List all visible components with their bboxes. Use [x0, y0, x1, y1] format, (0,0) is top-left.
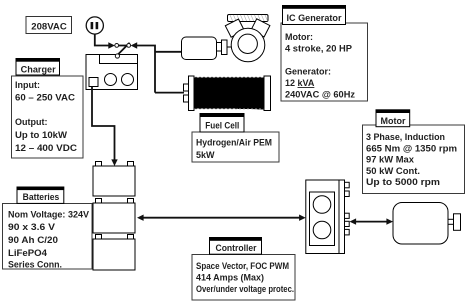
Charger spec box [12, 76, 84, 158]
svg-text:414 Amps (Max): 414 Amps (Max) [196, 273, 264, 283]
svg-text:Over/under voltage protec.: Over/under voltage protec. [196, 284, 294, 294]
wire batteries to controller (bidirectional) [137, 215, 306, 221]
wire controller to motor (bidirectional) [350, 218, 394, 224]
wire plug to switch [95, 34, 115, 49]
svg-text:Charger: Charger [21, 65, 56, 75]
IC Generator label box [282, 5, 346, 24]
svg-text:5kW: 5kW [196, 150, 215, 160]
svg-text:12 – 400 VDC: 12 – 400 VDC [15, 143, 78, 153]
svg-text:Batteries: Batteries [23, 192, 60, 202]
svg-text:Nom Voltage: 324V: Nom Voltage: 324V [8, 210, 89, 220]
svg-text:Series Conn.: Series Conn. [8, 260, 62, 270]
battery module B1 [93, 162, 135, 197]
svg-text:90 x 3.6 V: 90 x 3.6 V [8, 222, 55, 232]
Batteries label box [17, 187, 64, 204]
motor icon [393, 203, 461, 245]
svg-text:Generator:: Generator: [285, 67, 331, 77]
svg-text:IC Generator: IC Generator [287, 13, 343, 23]
wire trunk from generator to switch [131, 42, 155, 92]
node 208VAC label box [26, 17, 72, 34]
charger unit icon [86, 55, 138, 90]
fuel cell stack icon [184, 76, 271, 111]
wire trunk branch to generator [155, 51, 182, 53]
Charger label box [16, 58, 60, 75]
svg-text:Up to 5000 rpm: Up to 5000 rpm [366, 177, 440, 187]
plug J1 (AC outlet symbol) [86, 17, 103, 34]
svg-text:60 – 250 VAC: 60 – 250 VAC [15, 93, 76, 103]
svg-text:3 Phase, Induction: 3 Phase, Induction [366, 132, 445, 142]
svg-text:Fuel Cell: Fuel Cell [205, 120, 239, 130]
svg-text:Space Vector, FOC PWM: Space Vector, FOC PWM [196, 261, 289, 271]
IC generator coupling [217, 40, 233, 55]
Fuel Cell label box [200, 113, 245, 132]
svg-text:Output:: Output: [15, 117, 47, 127]
svg-text:240VAC @ 60Hz: 240VAC @ 60Hz [285, 90, 356, 100]
svg-text:LiFePO4: LiFePO4 [8, 248, 47, 258]
svg-text:208VAC: 208VAC [31, 22, 67, 32]
IC Generator spec box [281, 23, 368, 101]
controller unit icon [306, 180, 349, 254]
svg-text:50 kW Cont.: 50 kW Cont. [366, 166, 420, 176]
svg-text:12 kVA: 12 kVA [285, 78, 315, 88]
svg-text:90 Ah C/20: 90 Ah C/20 [8, 235, 58, 245]
Controller label box [209, 237, 262, 254]
svg-text:665 Nm @ 1350 rpm: 665 Nm @ 1350 rpm [366, 143, 457, 153]
battery module B3 [93, 235, 135, 271]
svg-text:Controller: Controller [216, 243, 257, 253]
svg-text:4 stroke, 20 HP: 4 stroke, 20 HP [285, 44, 352, 54]
svg-text:Motor: Motor [381, 116, 406, 126]
switch S1 [115, 43, 131, 58]
Motor spec box [363, 125, 465, 194]
svg-text:Input:: Input: [15, 80, 40, 90]
Motor label box [376, 110, 410, 127]
Controller spec box [192, 255, 295, 301]
Batteries spec box [3, 204, 93, 270]
battery module B2 [93, 199, 135, 234]
svg-text:Hydrogen/Air PEM: Hydrogen/Air PEM [196, 138, 272, 148]
IC generator engine [225, 15, 270, 62]
IC generator motor body [182, 37, 217, 60]
svg-text:Up to 10kW: Up to 10kW [15, 130, 68, 140]
svg-text:Motor:: Motor: [285, 32, 313, 42]
Fuel Cell spec box [192, 132, 279, 162]
wire charger to batteries [92, 87, 118, 167]
wire trunk branch to fuel cell [155, 92, 184, 94]
svg-text:97 kW Max: 97 kW Max [366, 155, 414, 165]
